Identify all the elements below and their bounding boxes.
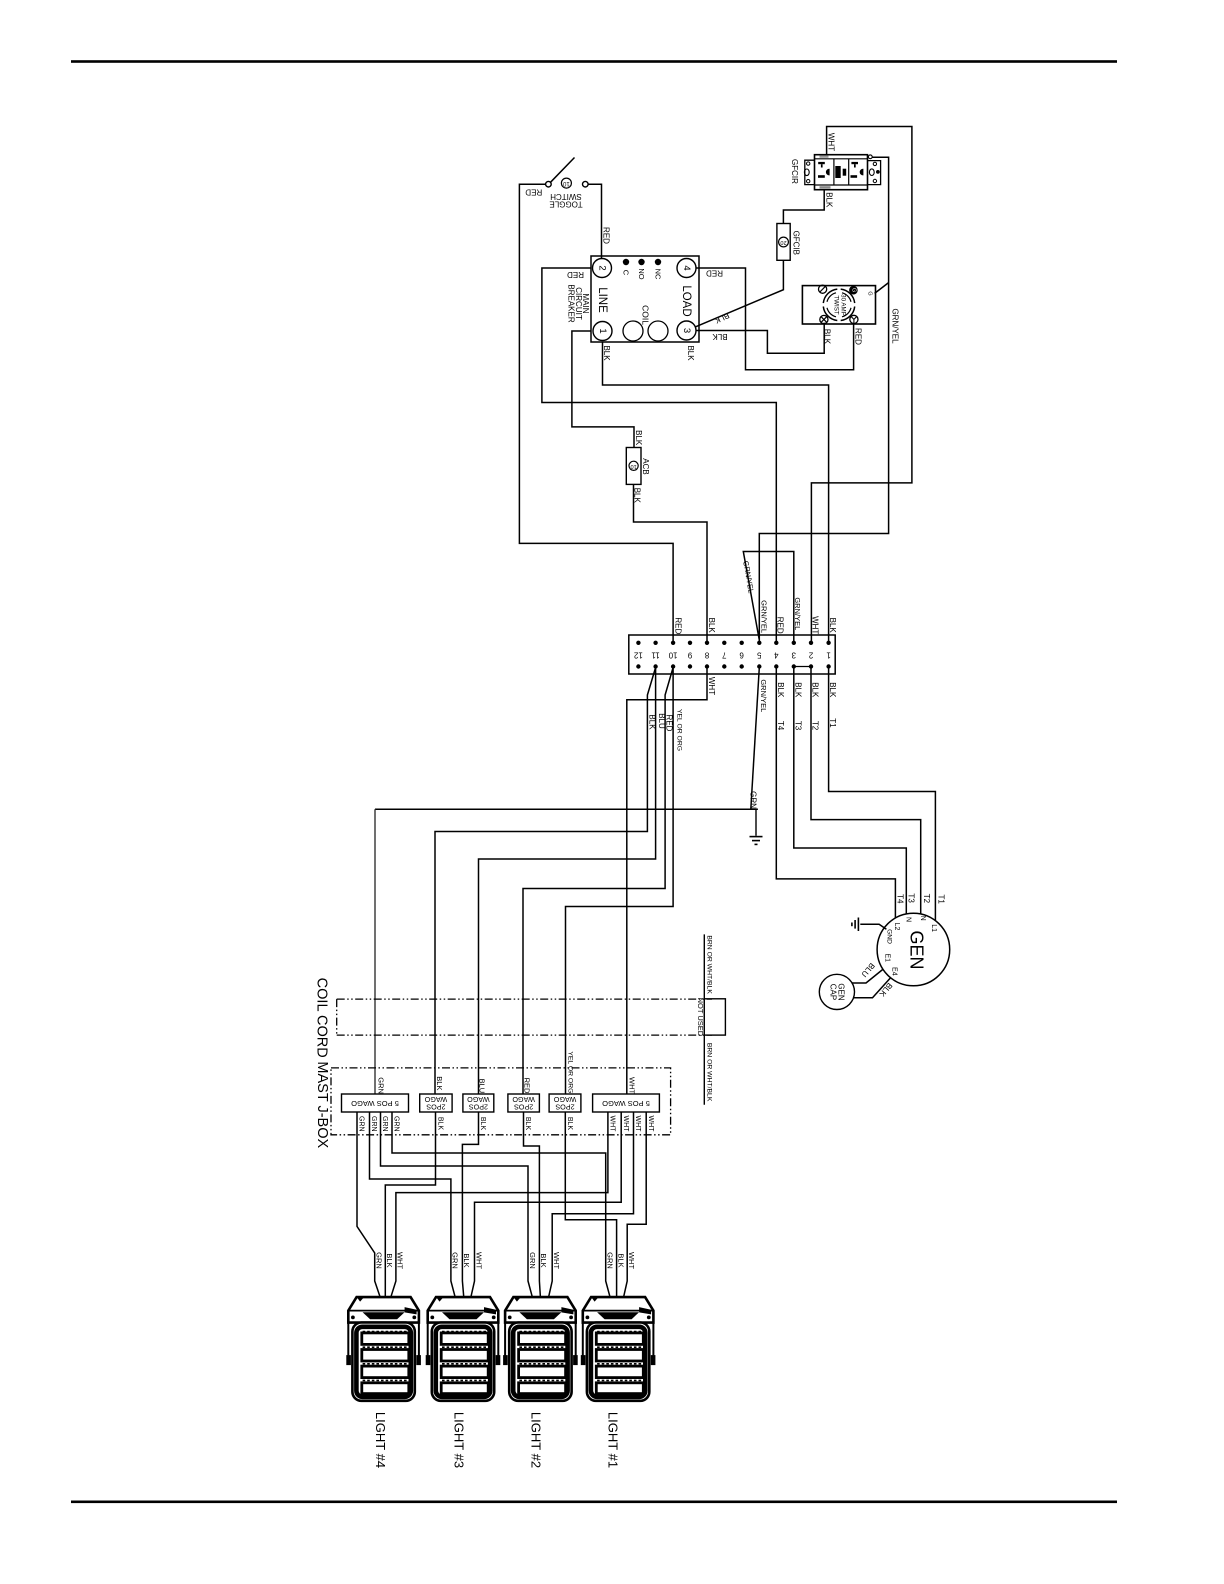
svg-text:BLK: BLK — [707, 618, 716, 634]
svg-text:G: G — [867, 291, 873, 295]
svg-text:1: 1 — [826, 650, 831, 659]
svg-text:1: 1 — [597, 328, 608, 333]
svg-text:RED: RED — [602, 227, 611, 244]
svg-text:6: 6 — [739, 650, 744, 659]
svg-text:7: 7 — [722, 650, 727, 659]
svg-text:WHT: WHT — [627, 1077, 636, 1094]
svg-text:T3: T3 — [793, 721, 802, 731]
svg-text:T4: T4 — [895, 894, 904, 904]
svg-text:WHT: WHT — [396, 1252, 405, 1269]
svg-text:TWIST: TWIST — [833, 295, 840, 314]
svg-text:LIGHT #4: LIGHT #4 — [373, 1412, 388, 1468]
svg-text:3: 3 — [681, 328, 692, 333]
svg-text:GRN: GRN — [376, 1077, 385, 1094]
svg-text:WHT: WHT — [827, 133, 836, 151]
svg-text:L2: L2 — [893, 923, 900, 931]
svg-text:YEL OR ORG: YEL OR ORG — [676, 709, 683, 751]
svg-text:E1: E1 — [883, 954, 890, 963]
svg-text:SWITCH: SWITCH — [550, 192, 582, 201]
svg-text:T2: T2 — [922, 894, 931, 904]
svg-text:LINE: LINE — [596, 287, 608, 313]
svg-text:WHT: WHT — [634, 1116, 641, 1133]
svg-text:WHT: WHT — [474, 1252, 483, 1269]
svg-text:RED: RED — [523, 1078, 532, 1094]
svg-text:GRN/YEL: GRN/YEL — [891, 308, 900, 344]
svg-text:E4: E4 — [891, 967, 898, 976]
svg-text:G: G — [850, 288, 856, 292]
svg-text:GRN: GRN — [393, 1116, 400, 1132]
svg-text:8: 8 — [704, 650, 709, 659]
svg-text:COIL CORD: COIL CORD — [313, 978, 329, 1058]
svg-text:10: 10 — [668, 650, 677, 659]
svg-text:GEN: GEN — [907, 930, 927, 969]
svg-text:BLK: BLK — [828, 682, 837, 698]
svg-text:2POS: 2POS — [469, 1102, 488, 1111]
svg-text:BLK: BLK — [435, 1076, 444, 1090]
svg-text:BLK: BLK — [686, 345, 695, 361]
svg-text:WHT: WHT — [609, 1116, 616, 1133]
svg-text:RED: RED — [525, 188, 542, 197]
svg-text:T1: T1 — [937, 895, 946, 905]
svg-text:RED: RED — [776, 617, 785, 634]
svg-text:5: 5 — [757, 650, 762, 659]
svg-text:11: 11 — [651, 650, 660, 659]
svg-text:BLK: BLK — [437, 1117, 444, 1131]
svg-text:5 POS WAGO: 5 POS WAGO — [602, 1099, 650, 1108]
svg-text:4: 4 — [774, 650, 779, 659]
svg-text:TOGGLE: TOGGLE — [549, 200, 582, 209]
svg-text:BLK: BLK — [539, 1253, 548, 1267]
svg-text:YEL OR ORG: YEL OR ORG — [566, 1051, 573, 1093]
svg-text:9: 9 — [687, 650, 692, 659]
svg-text:MAST J-BOX: MAST J-BOX — [314, 1061, 330, 1148]
svg-text:RED: RED — [665, 715, 674, 732]
svg-text:L1: L1 — [930, 924, 937, 932]
svg-text:BLK: BLK — [824, 192, 833, 208]
svg-text:2: 2 — [597, 265, 608, 270]
svg-text:3: 3 — [791, 650, 796, 659]
svg-text:T4: T4 — [776, 721, 785, 731]
svg-text:GRN: GRN — [748, 791, 757, 809]
svg-text:BLK: BLK — [712, 332, 728, 341]
svg-text:ACB: ACB — [641, 458, 650, 474]
svg-text:BLK: BLK — [828, 618, 837, 634]
svg-text:BLU: BLU — [478, 1079, 487, 1094]
svg-text:10: 10 — [562, 180, 569, 186]
svg-text:BLK: BLK — [616, 1253, 625, 1267]
svg-text:GRN: GRN — [451, 1252, 460, 1269]
svg-text:BLK: BLK — [385, 1253, 394, 1267]
svg-text:WHT: WHT — [647, 1116, 654, 1133]
svg-text:BLK: BLK — [566, 1117, 573, 1131]
svg-text:2POS: 2POS — [555, 1102, 574, 1111]
svg-text:BLK: BLK — [524, 1117, 531, 1131]
svg-text:BLK: BLK — [462, 1253, 471, 1267]
svg-text:LOAD: LOAD — [680, 285, 692, 316]
svg-text:GRN: GRN — [528, 1252, 537, 1269]
svg-text:2: 2 — [808, 650, 813, 659]
svg-text:WHT: WHT — [622, 1116, 629, 1133]
svg-text:GRN/YEL: GRN/YEL — [760, 600, 769, 633]
svg-text:2POS: 2POS — [514, 1102, 533, 1111]
svg-text:GRN/YEL: GRN/YEL — [759, 679, 768, 712]
svg-text:GND: GND — [886, 929, 893, 944]
svg-text:RED: RED — [706, 268, 723, 277]
svg-text:BLK: BLK — [479, 1117, 486, 1131]
svg-text:WHT: WHT — [627, 1252, 636, 1269]
svg-text:GRN: GRN — [370, 1116, 377, 1132]
svg-text:GRN/YEL: GRN/YEL — [741, 560, 756, 594]
svg-text:LIGHT #1: LIGHT #1 — [606, 1412, 621, 1468]
svg-text:BLK: BLK — [647, 714, 656, 730]
svg-text:BLK: BLK — [811, 682, 820, 698]
svg-text:LIGHT #3: LIGHT #3 — [451, 1412, 466, 1468]
svg-text:CAP: CAP — [829, 984, 838, 1000]
svg-text:WHT: WHT — [810, 616, 819, 634]
svg-text:WHT: WHT — [552, 1252, 561, 1269]
svg-text:4: 4 — [681, 265, 692, 270]
svg-text:WHT: WHT — [707, 677, 716, 695]
svg-text:10: 10 — [630, 463, 636, 469]
svg-text:BRN OR WHT/BLK: BRN OR WHT/BLK — [705, 1043, 712, 1102]
svg-text:GFCIR: GFCIR — [790, 159, 799, 184]
svg-text:GRN: GRN — [606, 1252, 615, 1269]
svg-text:RED: RED — [673, 617, 682, 634]
svg-text:BLK: BLK — [823, 329, 832, 345]
svg-text:GRN: GRN — [358, 1116, 365, 1132]
svg-text:2POS: 2POS — [426, 1102, 445, 1111]
svg-text:BREAKER: BREAKER — [567, 284, 576, 322]
svg-text:RED: RED — [567, 270, 584, 279]
svg-text:BRN OR WHT/BLK: BRN OR WHT/BLK — [705, 935, 712, 994]
svg-text:GFCIB: GFCIB — [791, 231, 800, 255]
svg-text:T1: T1 — [828, 718, 837, 728]
svg-text:GRN/YEL: GRN/YEL — [793, 597, 802, 630]
svg-text:NOT USED: NOT USED — [696, 998, 705, 1037]
svg-text:GRN: GRN — [381, 1116, 388, 1132]
svg-text:5 POS WAGO: 5 POS WAGO — [351, 1099, 399, 1108]
svg-text:T2: T2 — [811, 721, 820, 731]
svg-text:12: 12 — [633, 650, 642, 659]
svg-text:C: C — [622, 270, 631, 276]
svg-text:NO: NO — [637, 268, 646, 279]
svg-text:GRN: GRN — [375, 1252, 384, 1269]
svg-text:LIGHT #2: LIGHT #2 — [529, 1412, 544, 1468]
svg-text:T3: T3 — [907, 893, 916, 903]
svg-text:BLK: BLK — [634, 430, 643, 446]
svg-text:N: N — [919, 916, 926, 921]
svg-text:BLK: BLK — [602, 345, 611, 361]
svg-text:RED: RED — [853, 328, 862, 345]
svg-text:N: N — [905, 917, 912, 922]
svg-text:NC: NC — [654, 269, 663, 280]
svg-text:BLK: BLK — [793, 682, 802, 698]
svg-text:COIL: COIL — [641, 305, 651, 325]
svg-text:BLK: BLK — [776, 682, 785, 698]
svg-text:20: 20 — [780, 239, 786, 245]
